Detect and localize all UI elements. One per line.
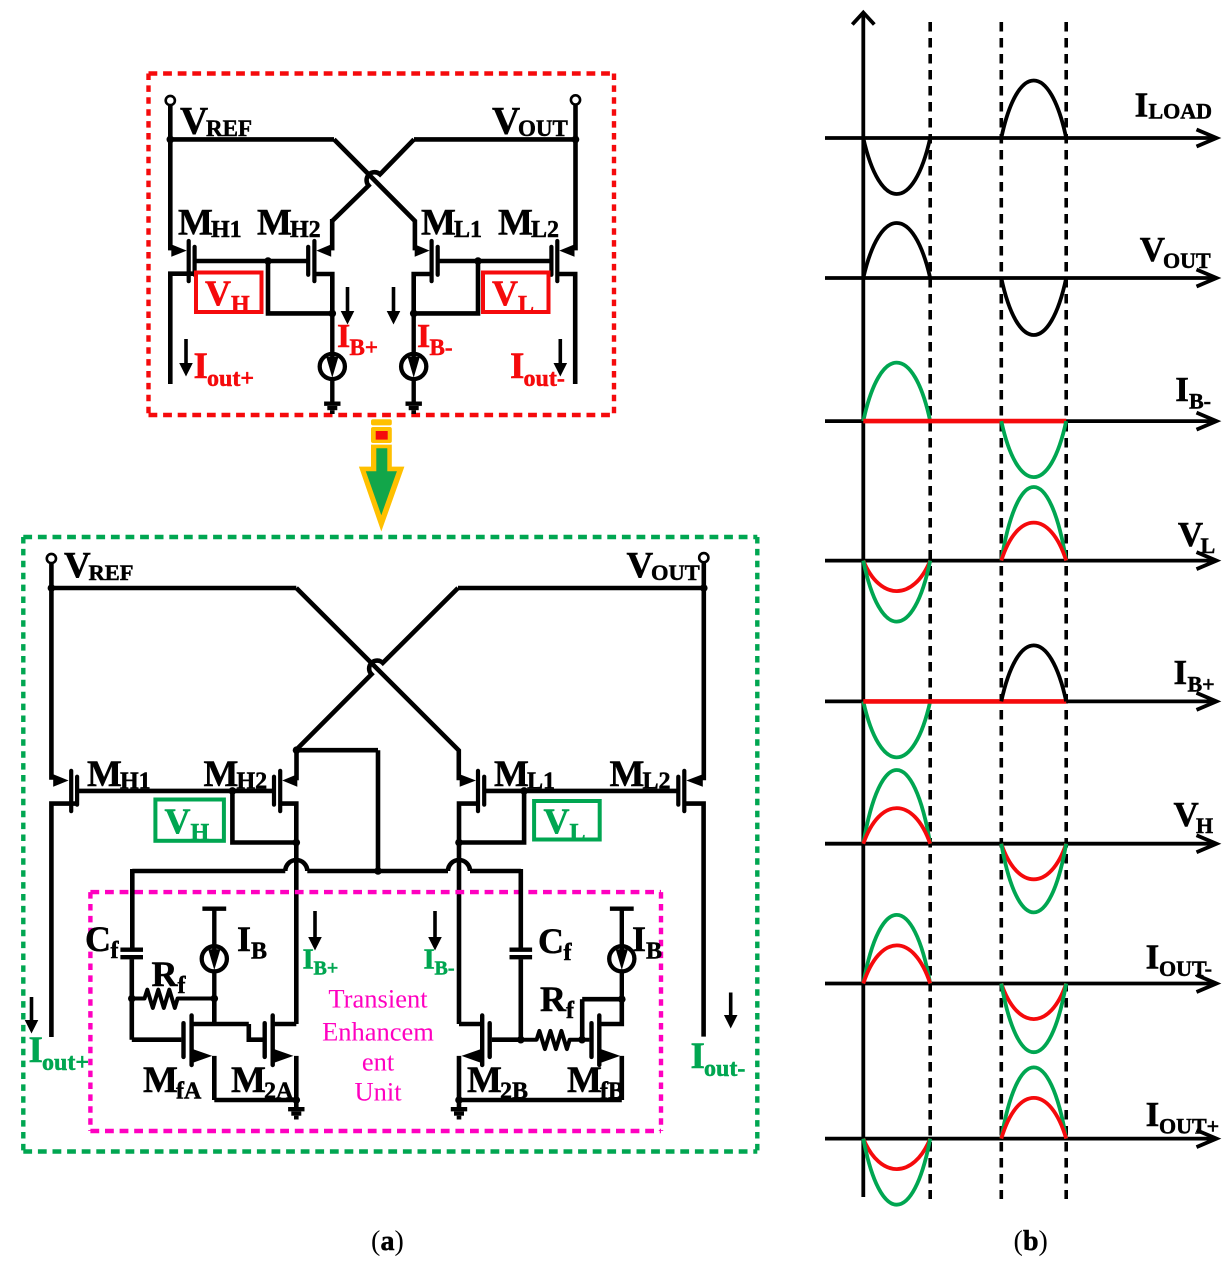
wire M2A ground stub	[294, 1100, 299, 1107]
svg-text:I: I	[237, 919, 251, 959]
wire center link vertical (big)	[376, 750, 381, 871]
node VL junction (big)	[520, 787, 528, 795]
axis row IOUT+	[825, 1137, 1213, 1141]
capacitor Cf (left)	[120, 948, 143, 952]
svg-text:H: H	[1196, 813, 1213, 838]
svg-text:REF: REF	[89, 560, 134, 585]
wire VOUT vertical (top)	[573, 104, 578, 250]
svg-text:I: I	[194, 346, 208, 387]
axis row ILOAD	[825, 136, 1213, 140]
wire ML2 source elbow (top)	[557, 274, 575, 384]
transition arrow (green/yellow)	[371, 419, 392, 425]
node VREF bus junction (top)	[167, 136, 175, 144]
svg-text:I: I	[29, 1030, 43, 1071]
svg-text:Unit: Unit	[354, 1077, 402, 1107]
wire IB to MfA drain (left)	[212, 999, 217, 1025]
axis row VH	[825, 842, 1213, 846]
wire VREF bus (big)	[49, 586, 296, 591]
svg-text:I: I	[510, 346, 524, 387]
svg-text:out-: out-	[704, 1056, 745, 1082]
wire MH2 source elbow (top)	[314, 274, 332, 313]
wire MfB gate jog	[580, 999, 585, 1039]
arrow M2A source	[275, 1049, 294, 1062]
svg-text:V: V	[1174, 795, 1199, 834]
arrow MfB source	[601, 1049, 620, 1062]
wire ML1 source to TEU vertical (big)	[457, 843, 462, 1025]
svg-text:L1: L1	[454, 217, 482, 243]
svg-text:V: V	[544, 801, 570, 841]
svg-text:R: R	[152, 954, 179, 994]
waveform VL positive red	[1001, 523, 1066, 561]
box VL (big, green)	[534, 801, 600, 840]
wire VL node drop (big)	[459, 791, 524, 843]
arrow Iout+ (top)	[184, 339, 188, 364]
waveform IB- flat (red)	[863, 419, 1066, 424]
wire ML1 source elbow (top)	[414, 274, 432, 313]
wire VOUT vertical (big)	[701, 562, 706, 780]
wire cross-couple left diagonal (big)	[296, 588, 459, 780]
wire MfB drain	[601, 999, 621, 1024]
svg-text:f: f	[111, 938, 120, 964]
transistor MH2 (top)	[312, 241, 316, 281]
wire M2B gate lead	[492, 1037, 521, 1042]
svg-text:V: V	[492, 100, 520, 143]
svg-text:(: (	[1014, 1226, 1023, 1257]
ground M2A	[288, 1107, 304, 1111]
svg-text:I: I	[424, 944, 435, 976]
terminal VREF (big)	[47, 554, 56, 563]
waveform VH negative red	[1001, 844, 1066, 880]
ground M2B	[451, 1107, 467, 1111]
node center rail junction (big)	[374, 867, 382, 875]
svg-text:M: M	[257, 203, 292, 244]
svg-text:I: I	[1175, 370, 1189, 409]
wire M2B source vertical	[457, 1056, 462, 1100]
wire Cf-right top lead	[518, 869, 523, 948]
waveform VOUT positive (black)	[863, 223, 930, 278]
wire M2A source vertical	[294, 1056, 299, 1100]
arrow Iout- (top)	[558, 339, 562, 364]
wire M2B ground stub	[457, 1100, 462, 1107]
svg-text:H2: H2	[290, 217, 321, 243]
wire ML1-ML2 gate line (top)	[439, 259, 551, 264]
wire VOUT bus (top)	[414, 137, 578, 142]
waveform IOUT- positive green	[863, 915, 930, 984]
arrow IB+ (big)	[313, 911, 317, 938]
node MH2 source junction (big)	[293, 839, 301, 847]
waveform ILOAD negative (black)	[863, 138, 930, 194]
wire VL node drop (top)	[414, 261, 478, 313]
node VH junction (big)	[229, 787, 237, 795]
node Rf-MfB junction	[578, 1036, 586, 1044]
wire VREF bus (top)	[168, 137, 334, 142]
node MH2 source junction (top)	[329, 310, 337, 318]
waveform VOUT negative (black)	[1001, 278, 1066, 335]
waveform dashed gridline 1	[928, 22, 932, 1199]
svg-text:C: C	[85, 919, 111, 959]
transistor M2B	[488, 1023, 492, 1057]
waveform VH negative green	[1001, 844, 1066, 913]
svg-text:out+: out+	[42, 1050, 89, 1076]
node Rf-right junction	[517, 1036, 525, 1044]
terminal VREF (top)	[166, 96, 175, 105]
svg-text:out+: out+	[207, 366, 254, 392]
svg-text:R: R	[540, 979, 567, 1019]
waveform IB+ flat (red)	[863, 699, 1066, 704]
svg-text:V: V	[165, 801, 191, 841]
svg-text:L2: L2	[531, 217, 559, 243]
svg-text:M: M	[178, 203, 213, 244]
svg-text:f: f	[564, 940, 573, 966]
wire MH2 source elbow (big)	[280, 804, 296, 843]
wire bottom rail with hops (big)	[132, 869, 285, 874]
node IB junction (right)	[618, 995, 626, 1003]
svg-text:B+: B+	[350, 335, 378, 360]
axis row IB-	[825, 419, 1213, 423]
current source IB- (top)	[412, 313, 416, 359]
node Rf-left junction	[128, 995, 136, 1003]
arrow IB- (big)	[433, 911, 437, 938]
transistor ML1 (top)	[430, 241, 434, 281]
wire MfA drain	[194, 1022, 249, 1027]
svg-text:I: I	[417, 318, 430, 355]
ground IB+ (top)	[324, 402, 340, 406]
arrow Iout+ (big)	[30, 997, 34, 1021]
svg-text:b: b	[1023, 1226, 1039, 1257]
node MH2 drain junction (big)	[293, 746, 301, 754]
node VL junction (top)	[474, 257, 482, 265]
transistor ML2 (big)	[682, 771, 686, 811]
arrow MfA source	[193, 1049, 212, 1062]
svg-text:B+: B+	[314, 958, 339, 980]
svg-text:B: B	[251, 939, 267, 965]
arrow Iout- (big)	[729, 993, 733, 1017]
svg-text:): )	[395, 1226, 404, 1257]
waveform dashed gridline 2	[999, 22, 1003, 1199]
svg-text:M: M	[567, 1060, 602, 1101]
svg-text:V: V	[64, 546, 91, 587]
node ML1 source junction (big)	[455, 839, 463, 847]
svg-text:Enhancem: Enhancem	[322, 1017, 434, 1047]
svg-text:OUT: OUT	[1163, 248, 1211, 273]
resistor Rf (left)	[132, 990, 215, 1008]
svg-text:L: L	[518, 292, 534, 318]
svg-text:I: I	[691, 1036, 705, 1077]
svg-text:H: H	[231, 292, 250, 318]
arrow M2B source	[462, 1049, 481, 1062]
wire ML1 source elbow (big)	[459, 804, 478, 843]
svg-text:I: I	[1174, 653, 1188, 692]
ground IB- (top)	[406, 402, 422, 406]
waveform VH positive green	[863, 770, 930, 844]
waveform VL negative green	[863, 561, 930, 622]
wire MfA-M2A source link	[214, 1098, 296, 1103]
wire VH node drop (top)	[268, 261, 332, 313]
current source IB+ (top)	[330, 313, 334, 359]
waveform IOUT- positive red	[863, 945, 930, 983]
waveform IOUT+ positive red	[1001, 1098, 1066, 1139]
waveform IOUT+ positive green	[1001, 1067, 1066, 1138]
transistor ML1 (big)	[476, 771, 480, 811]
wire VREF vertical (big)	[49, 563, 54, 780]
svg-text:OUT-: OUT-	[1159, 956, 1212, 981]
node M2A source junction	[293, 1096, 301, 1104]
waveform IB- negative (green)	[1001, 421, 1066, 477]
svg-text:out-: out-	[524, 366, 565, 392]
svg-text:I: I	[1146, 1095, 1160, 1134]
wire MH2 source to TEU vertical (big)	[294, 843, 299, 1025]
resistor Rf (right)	[521, 1031, 590, 1049]
svg-text:H: H	[191, 820, 210, 846]
svg-text:M: M	[467, 1060, 502, 1101]
svg-text:I: I	[632, 919, 646, 959]
svg-text:OUT: OUT	[651, 560, 700, 585]
node VH junction (top)	[264, 257, 272, 265]
waveform IOUT+ negative green	[863, 1139, 930, 1205]
capacitor Cf (right)	[510, 948, 533, 952]
wire MfA gate lead	[130, 997, 135, 1040]
svg-text:(: (	[371, 1226, 380, 1257]
box VL (top, red)	[483, 273, 549, 313]
wire MH1-MH2 gate line (top)	[196, 259, 308, 264]
wire Cf-right bottom lead	[518, 959, 523, 1039]
svg-text:C: C	[538, 921, 564, 961]
svg-text:M: M	[143, 1060, 178, 1101]
svg-text:M: M	[498, 203, 533, 244]
svg-text:M: M	[231, 1060, 266, 1101]
wire VREF vertical (top)	[168, 105, 173, 250]
svg-text:B: B	[646, 939, 662, 965]
waveform ILOAD positive (black)	[1001, 81, 1066, 138]
waveform IB+ positive (black)	[1001, 645, 1066, 701]
axis row VOUT	[825, 276, 1213, 280]
wire Cf-left top lead	[130, 869, 135, 948]
wire VOUT bus (big)	[458, 586, 706, 591]
current source IB (right B)	[610, 907, 634, 911]
node VOUT bus junction (big)	[700, 584, 708, 592]
svg-text:Transient: Transient	[328, 984, 428, 1014]
svg-text:B-: B-	[435, 958, 455, 980]
svg-text:I: I	[1146, 938, 1160, 977]
svg-text:L: L	[1201, 533, 1216, 558]
wire cross-couple right diagonal with hop (big)	[297, 588, 459, 750]
waveform IB- positive (green)	[863, 363, 930, 421]
wire IB to MfB gate (right)	[582, 997, 622, 1002]
wire ML1-ML2 gate line (big)	[485, 789, 677, 794]
svg-text:f: f	[566, 998, 575, 1024]
wire MfB source vertical	[619, 1056, 624, 1100]
wire MH1-MH2 gate line (big)	[78, 789, 273, 794]
transistor ML2 (top)	[555, 241, 559, 281]
TEU boundary (magenta dashed box)	[90, 890, 661, 894]
svg-text:I: I	[337, 318, 350, 355]
wire cross-couple right diagonal with hop (top)	[332, 139, 414, 221]
waveform IOUT- negative red	[1001, 984, 1066, 1020]
svg-text:a: a	[381, 1226, 395, 1257]
svg-text:I: I	[303, 944, 314, 976]
svg-text:I: I	[1135, 86, 1149, 125]
wire VH node drop (big)	[232, 791, 296, 843]
waveform VH positive red	[863, 808, 930, 844]
box VH (big, green)	[155, 800, 224, 841]
top circuit boundary (red dashed box)	[149, 71, 615, 75]
svg-text:fA: fA	[176, 1079, 202, 1105]
terminal VOUT (big)	[699, 553, 708, 562]
svg-text:V: V	[1178, 515, 1203, 554]
node VREF bus junction (big)	[48, 584, 56, 592]
axis row IOUT-	[825, 982, 1213, 986]
svg-text:): )	[1039, 1226, 1048, 1257]
node M2B source junction	[455, 1096, 463, 1104]
node IB-Rf junction (left)	[211, 995, 219, 1003]
svg-text:V: V	[627, 546, 654, 587]
current source IB (left A)	[202, 907, 226, 911]
transistor MH1 (big)	[69, 771, 73, 811]
transistor MfB	[589, 1023, 593, 1057]
svg-text:L: L	[570, 820, 586, 846]
svg-text:f: f	[178, 973, 187, 999]
transistor MfA	[181, 1023, 185, 1057]
wire M2A drain	[275, 1022, 297, 1027]
waveform IOUT- negative green	[1001, 984, 1066, 1053]
wire MH2 drain vertical (big)	[294, 748, 299, 780]
arrow IB- (top)	[392, 287, 396, 312]
svg-text:V: V	[180, 100, 208, 143]
svg-text:B+: B+	[1188, 672, 1215, 697]
axis row IB+	[825, 700, 1213, 704]
svg-text:B-: B-	[1189, 389, 1211, 414]
arrow IB+ (top)	[346, 287, 350, 312]
svg-text:LOAD: LOAD	[1149, 99, 1213, 124]
big circuit boundary (green dashed box)	[23, 535, 757, 539]
waveform dashed gridline 3	[1064, 22, 1068, 1199]
transistor M2A	[263, 1023, 267, 1057]
box VH (top, red)	[196, 273, 262, 313]
wire MH1 source elbow (big)	[51, 804, 78, 1037]
wire center link horizontal (big)	[297, 748, 379, 753]
svg-text:V: V	[205, 273, 231, 313]
wire Cf-left bottom lead	[130, 959, 135, 998]
wire M2B drain	[459, 1022, 480, 1027]
waveform VL positive green	[1001, 487, 1066, 561]
waveform IOUT+ negative red	[863, 1139, 930, 1169]
wire MfA source vertical	[212, 1056, 217, 1100]
waveform IB+ negative (green)	[863, 701, 930, 757]
axis row VL	[825, 559, 1213, 563]
svg-text:V: V	[1140, 230, 1165, 269]
node ML1 source junction (top)	[410, 310, 418, 318]
svg-text:H1: H1	[211, 217, 242, 243]
waveform vertical axis	[861, 15, 865, 1197]
wire cross-couple left diagonal (top)	[334, 139, 415, 250]
node VOUT bus junction (top)	[572, 136, 580, 144]
transistor MH2 (big)	[278, 771, 282, 811]
wire M2A gate jog	[249, 1024, 263, 1040]
wire M2B-MfB source link	[459, 1098, 622, 1103]
svg-text:OUT+: OUT+	[1159, 1114, 1219, 1139]
terminal VOUT (top)	[571, 95, 580, 104]
svg-text:M: M	[421, 203, 456, 244]
transistor MH1 (top)	[187, 241, 191, 281]
svg-text:V: V	[492, 273, 518, 313]
waveform VL negative red	[863, 561, 930, 591]
svg-text:ent: ent	[362, 1047, 395, 1077]
svg-text:B-: B-	[430, 335, 453, 360]
wire MH1 source elbow (top)	[170, 274, 195, 384]
wire ML2 source elbow (big)	[684, 804, 703, 1037]
